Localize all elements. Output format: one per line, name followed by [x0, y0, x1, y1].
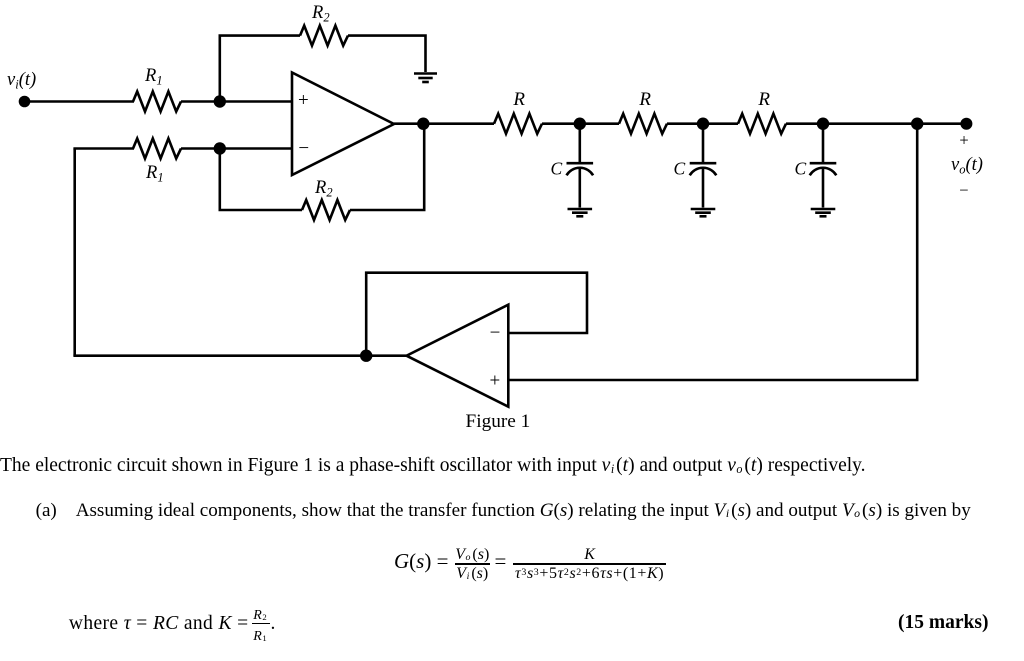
- equation fraction Vo over Vi: [455, 546, 490, 582]
- wire bottom feedback left segment: [219, 209, 303, 212]
- svg-text:−: −: [298, 138, 309, 159]
- label R2 top: [311, 3, 330, 25]
- ground cap 3: [811, 209, 836, 216]
- wire top feedback left segment: [219, 34, 301, 37]
- wire cap 1 bottom: [578, 168, 581, 208]
- svg-text:R1: R1: [145, 163, 164, 185]
- label U1 minus: [298, 138, 309, 159]
- label R1 bottom: [145, 163, 164, 185]
- svg-text:vo(t): vo(t): [951, 155, 983, 177]
- resistor R2 top: [300, 26, 348, 46]
- wire left feedback vertical: [73, 149, 76, 357]
- node feedback tap: [911, 118, 923, 130]
- label U1 plus: [298, 90, 309, 111]
- paragraph line 1: [0, 456, 866, 476]
- label 15 marks: [898, 613, 988, 633]
- wire ladder segment 3 to output terminal: [786, 122, 966, 125]
- paragraph line 4: [69, 614, 249, 634]
- node ladder 1: [574, 118, 586, 130]
- capacitor C 1: [567, 163, 594, 175]
- resistor R1 top: [133, 92, 181, 112]
- label R ladder 3: [757, 89, 770, 110]
- node output terminal vo: [960, 118, 972, 130]
- resistor R ladder 2: [619, 114, 667, 134]
- wire U1 output: [394, 122, 494, 125]
- label vo plus: [959, 130, 968, 149]
- svg-text:R: R: [757, 89, 770, 110]
- label U2 plus: [490, 371, 501, 392]
- svg-text:+: +: [959, 130, 968, 149]
- equation G(s) main: [394, 551, 448, 572]
- label R ladder 1: [512, 89, 525, 110]
- wire cap 2 top: [702, 124, 705, 164]
- svg-text:R1: R1: [144, 66, 163, 88]
- svg-text:+: +: [298, 90, 309, 111]
- resistor R2 bottom: [302, 200, 350, 220]
- wire cap 3 top: [822, 124, 825, 164]
- wire left to R1 bottom: [73, 147, 134, 150]
- node ladder 2: [697, 118, 709, 130]
- node B junction minus input: [214, 142, 226, 154]
- node U1 output: [417, 118, 429, 130]
- equation second equals: [495, 551, 507, 572]
- capacitor C 2: [690, 163, 717, 175]
- equation fraction K over poly: [513, 546, 666, 582]
- wire R1 to op-amp plus input: [181, 100, 292, 103]
- resistor R ladder 1: [494, 114, 542, 134]
- label vo minus: [959, 181, 968, 200]
- label U2 minus: [490, 323, 501, 344]
- wire ladder segment 2: [667, 122, 738, 125]
- ground top right: [414, 74, 437, 83]
- node input terminal vi: [19, 96, 31, 108]
- wire node A up to top feedback: [219, 36, 222, 102]
- ground cap 1: [568, 209, 593, 216]
- wire U2 feedback loop: [366, 273, 587, 356]
- svg-text:C: C: [795, 158, 807, 178]
- wire right feedback vertical and horizontal to U2 plus input: [508, 124, 917, 380]
- resistor R ladder 3: [738, 114, 786, 134]
- svg-text:R2: R2: [314, 178, 333, 200]
- wire R1 bottom to op-amp minus input: [181, 147, 292, 150]
- capacitor C 3: [810, 163, 837, 175]
- op-amp U1: [292, 73, 394, 176]
- label R1 top: [144, 66, 163, 88]
- svg-text:−: −: [490, 323, 501, 344]
- period after fraction: [271, 614, 276, 634]
- wire cap 1 top: [578, 124, 581, 164]
- wire bottom feedback right segment up to output: [350, 124, 424, 210]
- svg-text:R: R: [512, 89, 525, 110]
- label C 2: [674, 158, 686, 178]
- paragraph line 2: [36, 501, 971, 520]
- node ladder 3: [817, 118, 829, 130]
- label R ladder 2: [638, 89, 651, 110]
- svg-text:C: C: [551, 158, 563, 178]
- label C 1: [551, 158, 563, 178]
- svg-text:Figure 1: Figure 1: [466, 411, 531, 432]
- node A junction plus input: [214, 95, 226, 107]
- wire cap 3 bottom: [822, 168, 825, 208]
- wire top feedback right segment: [348, 36, 426, 72]
- op-amp U2: [407, 305, 509, 407]
- svg-text:vi(t): vi(t): [7, 70, 36, 92]
- label C 3: [795, 158, 807, 178]
- fraction R2 over R1: [252, 608, 270, 644]
- label R2 bottom: [314, 178, 333, 200]
- wire cap 2 bottom: [702, 168, 705, 208]
- svg-text:C: C: [674, 158, 686, 178]
- svg-text:R2: R2: [311, 3, 330, 25]
- wire ladder segment 1: [542, 122, 619, 125]
- label vi(t): [7, 70, 36, 92]
- svg-text:−: −: [959, 181, 968, 200]
- svg-text:R: R: [638, 89, 651, 110]
- wire U2 output to left feedback: [73, 354, 406, 357]
- ground cap 2: [691, 209, 716, 216]
- wire node B down to bottom feedback: [219, 149, 222, 211]
- node U2 output: [360, 350, 372, 362]
- svg-text:+: +: [490, 371, 501, 392]
- resistor R1 bottom: [133, 139, 181, 159]
- label Figure 1: [466, 411, 531, 432]
- label vo(t): [951, 155, 983, 177]
- wire input to R1: [25, 100, 135, 103]
